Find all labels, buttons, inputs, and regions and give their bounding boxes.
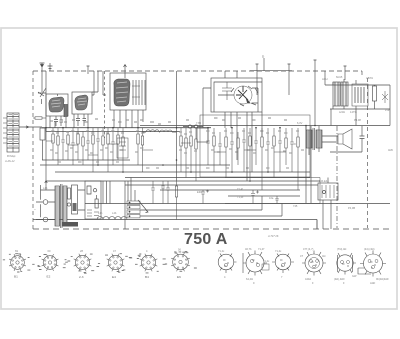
capacitor C7 (86, 128, 90, 160)
resistor R14 (185, 128, 187, 138)
resistor R12 (141, 128, 143, 172)
wire tick x345 (344, 66, 347, 80)
converter box inner corner (214, 82, 262, 112)
cap C22 (166, 181, 170, 204)
bus y210 (140, 196, 262, 210)
wire x315 vertical to output (314, 60, 317, 126)
svg-text:7,85: 7,85 (196, 121, 202, 125)
IF winding lines (133, 80, 145, 105)
svg-text:E6: E6 (177, 275, 181, 279)
fuse element (73, 203, 77, 211)
output transformer T3 winding b (316, 130, 322, 148)
tone box TB (318, 183, 338, 200)
label right arrows (382, 91, 388, 103)
svg-text:AΩF: AΩF (370, 281, 376, 285)
capacitor C14 (254, 128, 258, 165)
box det (197, 128, 208, 142)
power transformer T4 secondary (63, 186, 67, 226)
capacitor C17 (290, 128, 296, 172)
cap C21 (161, 181, 165, 204)
octal socket V1 (218, 254, 236, 274)
fuse box (72, 185, 78, 214)
wire risers to top line (94, 71, 103, 95)
wire tuner pins down (50, 114, 88, 128)
capacitor C12 (230, 128, 234, 172)
svg-text:(TΩ),4Ω: (TΩ),4Ω (337, 247, 346, 251)
mid cluster box (200, 115, 310, 177)
resistor R20 (373, 86, 377, 101)
capacitor C16 (278, 128, 282, 172)
junction dots (45, 125, 316, 182)
svg-text:~: ~ (34, 207, 36, 211)
resistor R9 (117, 128, 119, 135)
svg-text:4T: 4T (300, 254, 303, 258)
value smudge row mid (50, 148, 304, 153)
terminal strip TS1 (3, 113, 19, 152)
tube base diagram B4 (140, 254, 158, 272)
svg-text:4Ω5: 4Ω5 (388, 148, 393, 152)
right sub box (225, 178, 320, 204)
wire output bottom (330, 85, 390, 126)
octal socket V5 (337, 253, 356, 275)
svg-text:A 727 26: A 727 26 (267, 234, 279, 238)
bus y181 (46, 180, 320, 182)
sub bus y160 (42, 159, 130, 161)
octal socket V6 (358, 251, 386, 277)
value smudge row upper (51, 131, 299, 134)
output tube B6 (352, 84, 368, 106)
capacitor C11 (218, 132, 222, 165)
resistor R3 (67, 132, 69, 136)
bus y203 long (85, 203, 390, 205)
wire rectifier risers (103, 181, 110, 204)
octal socket V3 (272, 254, 294, 274)
output winding L11 (341, 82, 348, 106)
wire coil joins (143, 131, 177, 133)
resistor R21 (249, 128, 251, 136)
dash-dot vertical right (336, 126, 338, 228)
wire left riser2 (38, 93, 58, 96)
trimmer C3 (76, 114, 80, 126)
wire converter pins down (225, 112, 252, 132)
resistor R30 (68, 188, 71, 199)
svg-text:A/4Ω: A/4Ω (339, 110, 345, 114)
svg-text:71,47: 71,47 (258, 247, 265, 251)
bus y177 (125, 177, 310, 179)
svg-text:9: 9 (253, 281, 255, 285)
power transformer T4 core (61, 184, 63, 228)
converter tube B5 (225, 71, 258, 106)
cap C24 electrolytic (251, 190, 259, 204)
resistor R6 (92, 128, 94, 135)
svg-text:477,(4,7): 477,(4,7) (303, 247, 314, 251)
wire left drop (43, 128, 47, 160)
resistor R4 (77, 128, 79, 134)
wire antenna down (41, 71, 43, 92)
resistor R22 (261, 128, 263, 137)
IF tube B3 shaded (114, 79, 130, 106)
wire from box up-left (203, 88, 211, 128)
resistor R17 (213, 128, 215, 136)
bus y216 (140, 204, 282, 217)
chassis dashed outline top (33, 70, 362, 72)
svg-text:750 A: 750 A (184, 231, 228, 248)
wire long vertical detector (176, 71, 178, 181)
bus y190 (160, 189, 300, 191)
svg-text:7: 7 (281, 275, 283, 279)
wire left long riser (45, 71, 47, 180)
svg-text:71,4x: 71,4x (218, 249, 225, 253)
second bus (46, 131, 180, 133)
bus y196 (228, 195, 300, 197)
link wires dense band (46, 141, 286, 155)
tube base diagram E2 (42, 254, 59, 271)
resistor R10 (122, 128, 124, 137)
resistor R24 (285, 128, 287, 138)
wire lamp link (183, 126, 203, 128)
trimmer C1 (54, 116, 58, 126)
svg-text:Φ/(4Ω)4ΩF: Φ/(4Ω)4ΩF (376, 277, 389, 281)
svg-text:P4.08: P4.08 (354, 118, 361, 122)
tone box circle (323, 191, 326, 194)
wire converter pin extensions (237, 112, 262, 181)
output tube section: coil L10 (333, 82, 340, 106)
tone box windings (322, 185, 334, 198)
tube base diagram 2-3 (74, 254, 92, 272)
svg-text:GW: GW (352, 274, 357, 278)
svg-text:L4b E4a: L4b E4a (319, 179, 329, 183)
osc coil L3 highlight (77, 98, 87, 105)
tube base diagram B1 (9, 254, 26, 271)
svg-text:10a: 10a (269, 196, 274, 200)
switch wiper arrow (138, 200, 148, 213)
AVC box left (40, 128, 45, 140)
svg-text:47: 47 (113, 249, 116, 253)
rectifier elements (87, 186, 97, 199)
converter grid caps (222, 82, 232, 100)
osc coil can L3 box (72, 92, 92, 114)
rectifier resistor (95, 199, 98, 208)
coil L6 humps (160, 130, 172, 132)
resistor R7 (102, 128, 104, 136)
resistor R18 (225, 128, 227, 137)
wire transformer top (306, 126, 319, 155)
resistor R16 (195, 128, 197, 139)
rectifier bottom contacts (87, 210, 99, 216)
wire solid overlay on dashed line (250, 70, 292, 72)
mains wires (36, 185, 57, 220)
svg-text:6,3V: 6,3V (297, 121, 303, 125)
resistor R8 (107, 128, 109, 134)
chassis dashed outline right (362, 71, 368, 228)
converter box outline (211, 78, 262, 112)
capacitor C10 (206, 128, 210, 165)
svg-text:A-2S-12: A-2S-12 (4, 159, 15, 163)
resistor R23 (273, 128, 275, 136)
rectifier box B7 (85, 181, 101, 219)
svg-text:56: 56 (178, 248, 181, 252)
svg-text:71,4x: 71,4x (237, 195, 244, 199)
svg-text:46,7b: 46,7b (245, 247, 252, 251)
svg-text:4: 4 (146, 249, 148, 253)
svg-text:F: F (312, 281, 314, 285)
chassis dashed outline left (32, 71, 34, 230)
svg-text:F: F (343, 281, 345, 285)
tube base diagram E4 (107, 254, 125, 272)
dial lamp wire x257 (256, 64, 259, 95)
coil L5 humps (146, 130, 159, 132)
trimmer C2 (60, 116, 64, 126)
svg-text:64,4Ω: 64,4Ω (246, 277, 253, 281)
resistor R19 (237, 132, 239, 138)
component sub box (117, 138, 128, 158)
wire arrow at top line x125 (124, 65, 127, 79)
wire gang link (92, 92, 106, 95)
RF coil L1 highlight (51, 100, 61, 107)
sub bus y165 (40, 164, 230, 166)
converter wires inside (218, 88, 258, 112)
cap C20 (151, 181, 155, 204)
component column block left (52, 128, 124, 172)
capacitor C13 (242, 128, 246, 172)
svg-text:E4: E4 (112, 275, 116, 279)
earth cross (48, 63, 53, 71)
dial lamp P2 (194, 125, 197, 128)
svg-text:B1: B1 (14, 275, 18, 279)
tube base diagram E6 (171, 253, 190, 272)
output transformer T3 core (313, 128, 315, 150)
wire output top (325, 71, 390, 86)
switch S1 contacts (38, 88, 46, 104)
svg-text:B4: B4 (145, 275, 149, 279)
resistor R1 (52, 128, 54, 134)
svg-text:71,4x: 71,4x (263, 259, 270, 263)
chassis dashed outline bottom (33, 228, 392, 230)
wire verticals right (306, 126, 311, 203)
IF winding arrows (132, 86, 140, 97)
octal socket V4 (302, 251, 326, 276)
wire tone drops (323, 178, 331, 230)
svg-text:71,4x: 71,4x (275, 249, 282, 253)
wire switch drops (125, 178, 135, 230)
svg-text:6Ω15: 6Ω15 (336, 75, 343, 79)
wire tick at top line x88 (87, 66, 90, 74)
choke L7 humps (97, 217, 127, 220)
trimmer C4 (83, 114, 87, 126)
mains plug circle b (43, 217, 48, 222)
osc coil L3 shaded core (75, 95, 88, 110)
node D wire x264 (263, 58, 265, 71)
resistor R11 (137, 128, 139, 165)
resistor R0 horizontal (33, 117, 46, 119)
wire output pin drops (331, 106, 356, 126)
svg-text:4Ω: 4Ω (322, 254, 325, 258)
svg-text:D: D (262, 55, 265, 59)
wire from strip to tuner (19, 126, 42, 128)
value smudge row under cans (50, 118, 287, 124)
cap C25 (275, 196, 278, 204)
dial lamp P1 (188, 125, 191, 128)
svg-text:745: 745 (293, 204, 298, 208)
IF tube highlight (116, 82, 128, 102)
svg-text:440A: 440A (305, 277, 311, 281)
power transformer T4 primary (55, 186, 60, 226)
sub bus y172 (55, 171, 310, 173)
resistor R13 (180, 128, 182, 136)
resistor R2 (57, 128, 59, 136)
octal socket V2 (243, 251, 269, 276)
resistor R27 (175, 181, 177, 220)
heater bus 6.3V (140, 125, 390, 127)
resistor bank mid (180, 128, 197, 181)
svg-text:4: 4 (224, 275, 226, 279)
svg-text:(44),(4Ω): (44),(4Ω) (364, 247, 375, 251)
wire speaker link (322, 136, 338, 142)
dashed divider vertical (104, 71, 106, 138)
capacitor C15 (266, 128, 270, 172)
antenna arrow (40, 63, 45, 71)
svg-text:69: 69 (15, 249, 18, 253)
svg-text:71,41: 71,41 (237, 187, 244, 191)
sub box marks (119, 142, 126, 150)
waveband switch stack (127, 201, 140, 218)
socket inner specks (223, 260, 376, 268)
resistor R5 (82, 132, 84, 138)
svg-text:L1b: L1b (98, 211, 103, 215)
svg-text:L4b: L4b (43, 186, 48, 190)
capacitor C5 (61, 128, 65, 160)
capacitor C30 (330, 126, 365, 152)
svg-text:E2: E2 (47, 275, 51, 279)
coil winding L2 (64, 104, 67, 117)
output transformer T3 winding a (306, 130, 312, 148)
svg-text:60: 60 (48, 249, 51, 253)
main top bus (42, 127, 211, 129)
bus y185 (125, 184, 318, 186)
dial lamp wire x289 (288, 64, 291, 95)
chassis bar shaded (62, 222, 78, 227)
lamp circle (67, 203, 70, 206)
capacitor C9 (111, 128, 115, 165)
wire IF pins down (114, 110, 143, 128)
wire to rectifier (45, 180, 85, 210)
resistor R25 (297, 128, 299, 137)
mains plug circle a (43, 200, 48, 205)
capacitor C8 (96, 128, 100, 165)
cap C23 electrolytic (201, 190, 209, 204)
svg-text:28: 28 (80, 249, 83, 253)
bus y219 long (33, 220, 317, 230)
svg-text:B=Map: B=Map (7, 154, 16, 158)
svg-text:A83%: A83% (366, 76, 374, 80)
resistor bank right (206, 128, 299, 190)
svg-text:P4,0B: P4,0B (348, 206, 355, 210)
capacitor C6 (71, 128, 75, 165)
RF coil can L1 box (46, 94, 68, 116)
value smudge row low (58, 162, 289, 168)
speaker LS (338, 129, 352, 149)
svg-text:ACH: ACH (322, 77, 328, 81)
resistor R15 (190, 128, 192, 136)
svg-text:(4Ω),4ΩF: (4Ω),4ΩF (334, 277, 345, 281)
svg-text:2-3: 2-3 (79, 275, 84, 279)
svg-text:L4b: L4b (112, 211, 117, 215)
svg-text:P.08: P.08 (385, 108, 391, 112)
RF coil L1 shaded core (49, 97, 64, 112)
IF transformer T1 box (110, 73, 146, 110)
